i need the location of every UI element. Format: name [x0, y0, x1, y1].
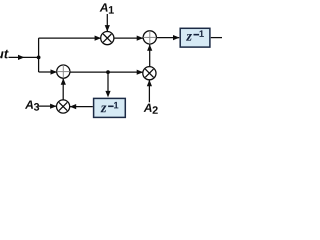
- wire A1 down into multiplier M1: [106, 14, 108, 31]
- wire M3 up into adder S2: [62, 79, 64, 100]
- wire S2 to multiplier M2: [70, 71, 143, 73]
- wire node B down into delay block B2: [107, 72, 109, 95]
- input label "Input" (clipped at left edge): [0, 49, 9, 61]
- wire S1 to delay block B1: [156, 37, 179, 39]
- wire B1 output to right edge: [211, 37, 222, 39]
- multiplier M3: [57, 100, 70, 113]
- wire lower branch to adder S2: [39, 71, 57, 73]
- multiplier M2: [143, 67, 156, 80]
- delay block B1 z^-1: [180, 28, 210, 47]
- label A1: [100, 3, 114, 13]
- wire top branch to multiplier M1: [39, 37, 101, 39]
- label A2: [144, 104, 158, 114]
- node A junction dot: [37, 56, 41, 60]
- wire M1 to adder S1: [114, 37, 143, 39]
- multiplier M1: [101, 31, 114, 44]
- wire A3 to multiplier M3: [37, 105, 56, 107]
- adder S1: [143, 31, 156, 44]
- wire branch vertical from node A: [38, 38, 40, 72]
- delay block B2 z^-1: [94, 98, 126, 117]
- wire input line to node A: [9, 56, 39, 58]
- adder S2: [57, 65, 70, 78]
- node B junction dot: [106, 70, 110, 74]
- wire M2 up into adder S1: [149, 45, 151, 67]
- wire B2 output left into multiplier M3: [70, 106, 93, 108]
- wire A2 up into multiplier M2: [148, 80, 150, 102]
- label A3: [25, 100, 39, 110]
